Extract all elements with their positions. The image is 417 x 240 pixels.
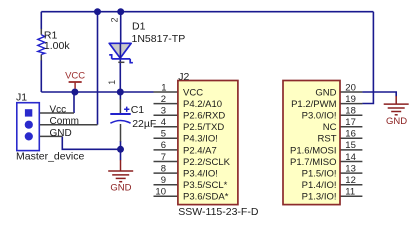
svg-text:SSW-115-23-F-D: SSW-115-23-F-D (178, 206, 259, 218)
svg-text:2: 2 (161, 94, 166, 105)
svg-text:P1.5/IO!: P1.5/IO! (302, 169, 337, 180)
svg-text:NC: NC (323, 122, 337, 133)
svg-text:1: 1 (161, 82, 166, 93)
svg-text:P2.4/A7: P2.4/A7 (183, 145, 217, 156)
svg-text:RST: RST (318, 134, 337, 145)
svg-text:P1.6/MOSI: P1.6/MOSI (290, 145, 336, 156)
svg-text:13: 13 (345, 163, 356, 174)
svg-text:8: 8 (161, 163, 166, 174)
svg-text:Comm: Comm (50, 116, 79, 127)
svg-text:J2: J2 (178, 71, 189, 83)
svg-text:P4.3/IO!: P4.3/IO! (183, 134, 218, 145)
svg-text:GND: GND (315, 87, 336, 98)
svg-text:11: 11 (345, 187, 355, 198)
svg-text:P1.2/PWM: P1.2/PWM (291, 99, 336, 110)
svg-text:1: 1 (107, 80, 117, 85)
svg-text:3: 3 (161, 106, 166, 117)
svg-text:12: 12 (345, 175, 356, 186)
svg-text:15: 15 (345, 140, 356, 151)
svg-text:VCC: VCC (183, 87, 203, 98)
svg-text:P3.0/IO!: P3.0/IO! (302, 111, 337, 122)
svg-text:P3.4/IO!: P3.4/IO! (183, 169, 218, 180)
svg-text:18: 18 (345, 106, 356, 117)
svg-text:P3.5/SCL*: P3.5/SCL* (183, 180, 228, 191)
svg-text:19: 19 (345, 94, 356, 105)
svg-text:D1: D1 (132, 21, 146, 33)
svg-text:C1: C1 (131, 104, 145, 116)
svg-text:9: 9 (161, 175, 166, 186)
svg-text:4: 4 (161, 117, 166, 128)
svg-text:2: 2 (110, 17, 120, 22)
svg-text:20: 20 (345, 82, 356, 93)
svg-text:7: 7 (161, 152, 166, 163)
svg-text:P2.2/SCLK: P2.2/SCLK (183, 157, 231, 168)
svg-text:Master_device: Master_device (16, 150, 84, 162)
svg-text:GND: GND (386, 116, 407, 127)
svg-text:P1.3/IO!: P1.3/IO! (302, 192, 337, 203)
svg-text:GND: GND (110, 183, 131, 194)
svg-text:17: 17 (345, 117, 356, 128)
svg-text:P2.5/TXD: P2.5/TXD (183, 122, 224, 133)
svg-text:P1.7/MISO: P1.7/MISO (290, 157, 336, 168)
svg-text:14: 14 (345, 152, 356, 163)
svg-text:P3.6/SDA*: P3.6/SDA* (183, 192, 229, 203)
svg-text:10: 10 (155, 187, 166, 198)
svg-text:16: 16 (345, 129, 356, 140)
svg-text:6: 6 (161, 140, 166, 151)
svg-text:J1: J1 (16, 92, 27, 104)
svg-text:Vcc: Vcc (50, 104, 67, 115)
svg-text:5: 5 (161, 129, 166, 140)
svg-text:P2.6/RXD: P2.6/RXD (183, 111, 225, 122)
svg-text:P1.4/IO!: P1.4/IO! (302, 180, 337, 191)
svg-text:1.00k: 1.00k (44, 40, 70, 52)
svg-text:P4.2/A10: P4.2/A10 (183, 99, 222, 110)
svg-text:GND: GND (50, 128, 72, 139)
svg-text:1N5817-TP: 1N5817-TP (132, 33, 186, 45)
svg-text:VCC: VCC (65, 71, 85, 82)
svg-text:22µF: 22µF (132, 118, 156, 130)
